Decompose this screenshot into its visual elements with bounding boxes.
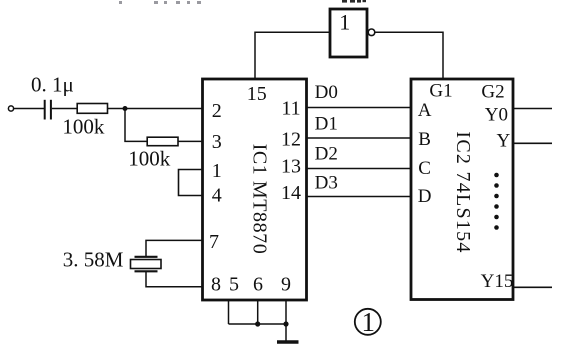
ground (277, 340, 299, 343)
IC2 74LS154 body (411, 79, 513, 300)
svg-text:G2: G2 (481, 82, 504, 103)
inverter gate body (330, 9, 367, 57)
svg-text:1: 1 (212, 160, 222, 182)
svg-text:13: 13 (281, 156, 301, 178)
node junction dot pin9 (283, 321, 288, 326)
svg-text:1: 1 (339, 10, 350, 35)
ellipsis dots Y1..Y14 (494, 173, 499, 230)
inverter output bubble (368, 29, 375, 36)
wire IC1 pin15 to gate input (255, 32, 329, 79)
wire IC1 pin6 down (257, 300, 259, 324)
wire IC1 pin9 down (285, 300, 287, 324)
svg-text:12: 12 (281, 128, 301, 150)
crystal X1 3.58M (131, 257, 162, 272)
wire bracket shorting pins 1 and 4 (179, 170, 203, 196)
svg-text:6: 6 (253, 274, 263, 296)
resistor R2 (147, 137, 178, 146)
wire bottom bus (229, 323, 287, 325)
wire gate output to IC2 G1 (375, 32, 443, 79)
wire D1 (306, 137, 411, 139)
svg-text:11: 11 (281, 98, 300, 120)
IC1 MT8870 body (203, 79, 307, 300)
svg-text:D0: D0 (315, 82, 338, 103)
node junction dot (123, 106, 128, 111)
svg-text:B: B (418, 129, 431, 150)
wire D0 (306, 107, 411, 109)
node junction dot pin6 (255, 321, 260, 326)
wire IC1 pin7 to crystal (146, 240, 202, 256)
svg-text:Y: Y (497, 130, 511, 151)
wire D2 (306, 168, 411, 170)
svg-text:IC2 74LS154: IC2 74LS154 (452, 131, 474, 252)
wire IC1 pin5 down (228, 300, 230, 324)
svg-text:100k: 100k (62, 115, 105, 139)
svg-text:3: 3 (212, 131, 222, 153)
svg-text:15: 15 (247, 83, 267, 105)
svg-text:7: 7 (209, 231, 219, 253)
capacitor C1 0.1u (45, 100, 51, 120)
svg-text:D2: D2 (315, 143, 338, 164)
wire R2 to IC1 pin3 (178, 140, 202, 142)
wire Y15 output (513, 286, 552, 288)
svg-text:C: C (418, 158, 431, 179)
figure number circled 1 (355, 307, 381, 337)
svg-text:D3: D3 (315, 172, 338, 193)
svg-text:4: 4 (212, 184, 222, 206)
svg-text:8: 8 (211, 274, 221, 296)
svg-text:A: A (418, 100, 432, 121)
wire junction down to R2 (125, 109, 147, 142)
svg-text:Y0: Y0 (485, 104, 508, 125)
svg-text:3. 58M: 3. 58M (63, 248, 124, 272)
scan remnant marks above gate (342, 0, 366, 3)
svg-text:2: 2 (212, 100, 222, 122)
svg-text:14: 14 (281, 182, 301, 204)
wire input to C1 (14, 108, 44, 110)
svg-text:D1: D1 (315, 114, 338, 135)
wire D3 (306, 196, 411, 198)
wire R1 to IC1 pin2 (108, 108, 203, 110)
svg-text:IC1 MT8870: IC1 MT8870 (249, 144, 271, 254)
wire Y0 output (513, 108, 552, 110)
wire to ground (285, 324, 287, 341)
wire Y output (513, 142, 552, 144)
svg-text:9: 9 (281, 274, 291, 296)
wire C1 to R1 (52, 108, 77, 110)
input terminal (open circle) (8, 106, 13, 111)
svg-text:5: 5 (229, 274, 239, 296)
wire crystal to IC1 pin8 (146, 272, 202, 287)
resistor R1 (77, 104, 107, 114)
svg-text:100k: 100k (128, 147, 171, 171)
svg-text:Y15: Y15 (481, 271, 514, 292)
svg-text:D: D (418, 186, 432, 207)
scan remnant marks top-left (119, 1, 201, 4)
svg-text:G1: G1 (429, 81, 452, 102)
svg-text:0. 1μ: 0. 1μ (31, 73, 74, 97)
svg-text:1: 1 (362, 307, 376, 337)
